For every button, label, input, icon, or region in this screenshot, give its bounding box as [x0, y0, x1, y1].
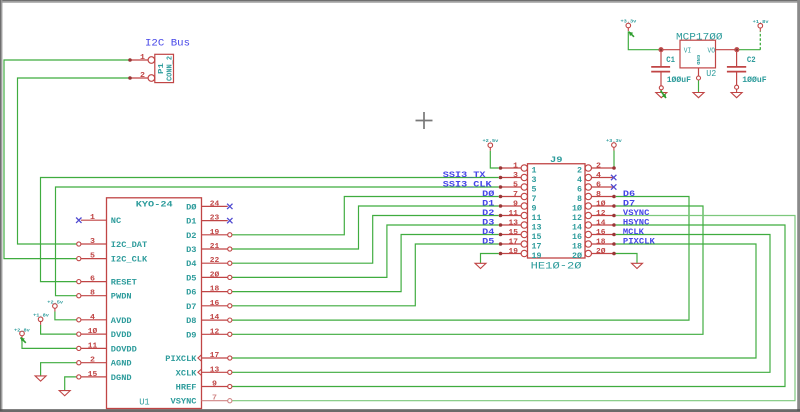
svg-text:15: 15 — [532, 233, 542, 242]
svg-text:VSYNC: VSYNC — [171, 398, 197, 407]
svg-text:1Ø: 1Ø — [572, 204, 582, 213]
svg-text:D5: D5 — [186, 274, 197, 283]
svg-text:VSYNC: VSYNC — [623, 208, 650, 218]
svg-text:D8: D8 — [186, 317, 197, 326]
svg-text:2: 2 — [140, 72, 146, 80]
svg-text:D9: D9 — [186, 331, 197, 340]
svg-text:16: 16 — [210, 300, 220, 308]
svg-text:19: 19 — [532, 252, 542, 261]
svg-text:P1: P1 — [158, 63, 166, 74]
svg-text:D2: D2 — [186, 232, 197, 241]
svg-text:3: 3 — [90, 238, 96, 246]
svg-text:D3: D3 — [482, 217, 494, 227]
svg-text:9: 9 — [513, 200, 519, 208]
svg-text:D7: D7 — [186, 303, 197, 312]
svg-text:VI: VI — [684, 47, 692, 55]
svg-text:NC: NC — [111, 217, 122, 226]
svg-text:D6: D6 — [623, 189, 635, 199]
svg-text:14: 14 — [210, 314, 220, 322]
svg-text:1Ø: 1Ø — [596, 199, 606, 208]
svg-text:14: 14 — [572, 223, 582, 232]
svg-text:16: 16 — [596, 229, 606, 237]
svg-text:9: 9 — [212, 381, 218, 389]
svg-text:1ØØuF: 1ØØuF — [742, 75, 766, 85]
svg-text:HSYNC: HSYNC — [623, 217, 650, 227]
svg-text:+3.3v: +3.3v — [606, 138, 622, 144]
svg-text:D1: D1 — [482, 198, 494, 208]
svg-text:+2.5v: +2.5v — [483, 138, 499, 144]
svg-text:19: 19 — [210, 229, 220, 237]
svg-text:I2C Bus: I2C Bus — [145, 39, 190, 50]
svg-text:PIXCLK: PIXCLK — [623, 236, 656, 246]
svg-text:+2.5v: +2.5v — [47, 300, 63, 306]
svg-text:SSI3_CLK: SSI3_CLK — [443, 179, 493, 189]
svg-text:2Ø: 2Ø — [596, 247, 606, 256]
svg-text:1: 1 — [90, 214, 96, 222]
svg-text:12: 12 — [210, 328, 220, 336]
svg-text:7: 7 — [532, 195, 537, 204]
svg-text:CONN_2: CONN_2 — [167, 56, 175, 81]
svg-text:1: 1 — [513, 162, 519, 170]
svg-text:MCP17ØØ: MCP17ØØ — [676, 32, 723, 44]
svg-text:15: 15 — [88, 371, 98, 379]
svg-text:HREF: HREF — [176, 384, 197, 393]
svg-text:I2C_DAT: I2C_DAT — [111, 241, 148, 250]
svg-text:17: 17 — [509, 238, 519, 246]
svg-text:GND: GND — [695, 55, 701, 65]
svg-text:18: 18 — [572, 242, 582, 251]
svg-text:7: 7 — [212, 395, 217, 403]
svg-text:DVDD: DVDD — [111, 331, 132, 340]
svg-text:DØ: DØ — [482, 189, 494, 199]
svg-text:C2: C2 — [747, 56, 756, 65]
svg-text:6: 6 — [90, 276, 96, 284]
svg-text:8: 8 — [596, 191, 602, 199]
svg-text:18: 18 — [596, 238, 606, 246]
svg-text:2Ø: 2Ø — [210, 270, 220, 279]
svg-text:D7: D7 — [623, 198, 635, 208]
svg-text:15: 15 — [509, 229, 519, 237]
svg-text:23: 23 — [210, 215, 220, 223]
svg-text:D3: D3 — [186, 246, 197, 255]
svg-text:1: 1 — [532, 166, 537, 175]
svg-text:SSI3_TX: SSI3_TX — [443, 170, 487, 180]
svg-text:KYO-24: KYO-24 — [136, 199, 173, 209]
svg-text:PWDN: PWDN — [111, 293, 132, 302]
svg-text:5: 5 — [90, 253, 96, 261]
svg-text:1ØØuF: 1ØØuF — [667, 75, 691, 85]
svg-text:13: 13 — [210, 366, 220, 374]
svg-text:D5: D5 — [482, 236, 494, 246]
svg-text:4: 4 — [90, 314, 96, 322]
svg-text:13: 13 — [532, 223, 542, 232]
svg-text:5: 5 — [513, 181, 519, 189]
svg-text:6: 6 — [596, 181, 602, 189]
svg-text:2: 2 — [577, 166, 582, 175]
svg-text:4: 4 — [596, 172, 602, 180]
svg-text:+1.8v: +1.8v — [753, 19, 769, 25]
svg-text:D4: D4 — [482, 227, 494, 237]
svg-text:11: 11 — [88, 342, 98, 350]
svg-text:+1.8v: +1.8v — [33, 313, 49, 319]
svg-text:DØ: DØ — [186, 203, 197, 212]
svg-text:16: 16 — [572, 233, 582, 242]
svg-text:19: 19 — [509, 248, 519, 256]
svg-text:8: 8 — [90, 290, 96, 298]
svg-text:8: 8 — [577, 195, 582, 204]
svg-text:U2: U2 — [706, 68, 716, 79]
svg-text:22: 22 — [210, 257, 220, 265]
svg-text:17: 17 — [210, 352, 220, 360]
svg-text:+3.3v: +3.3v — [621, 19, 637, 25]
svg-text:DOVDD: DOVDD — [111, 345, 137, 354]
svg-text:24: 24 — [210, 200, 220, 208]
svg-text:D4: D4 — [186, 260, 197, 269]
svg-text:XCLK: XCLK — [176, 369, 197, 378]
svg-text:MCLK: MCLK — [623, 227, 645, 237]
svg-text:2: 2 — [90, 357, 96, 365]
svg-text:PIXCLK: PIXCLK — [165, 355, 196, 364]
svg-text:DGND: DGND — [111, 374, 132, 383]
svg-text:2Ø: 2Ø — [572, 252, 582, 261]
svg-text:13: 13 — [509, 219, 519, 227]
svg-text:J9: J9 — [550, 155, 563, 165]
svg-text:D6: D6 — [186, 289, 197, 298]
svg-text:9: 9 — [532, 204, 537, 213]
svg-text:VO: VO — [708, 47, 716, 55]
svg-text:AVDD: AVDD — [111, 317, 132, 326]
svg-text:3: 3 — [513, 172, 519, 180]
svg-text:AGND: AGND — [111, 360, 132, 369]
svg-text:+2.8v: +2.8v — [14, 328, 30, 334]
svg-text:17: 17 — [532, 242, 542, 251]
svg-text:1Ø: 1Ø — [88, 327, 98, 336]
svg-text:U1: U1 — [139, 396, 150, 407]
svg-text:12: 12 — [572, 214, 582, 223]
svg-text:D2: D2 — [482, 208, 494, 218]
svg-text:HE1Ø-2Ø: HE1Ø-2Ø — [531, 260, 582, 272]
svg-text:1: 1 — [140, 54, 146, 62]
svg-text:12: 12 — [596, 210, 606, 218]
svg-text:18: 18 — [210, 286, 220, 294]
svg-text:5: 5 — [532, 185, 537, 194]
svg-text:RESET: RESET — [111, 279, 137, 288]
svg-text:7: 7 — [513, 191, 518, 199]
svg-text:4: 4 — [577, 176, 582, 185]
svg-text:6: 6 — [577, 185, 582, 194]
svg-text:3: 3 — [532, 176, 537, 185]
svg-text:D1: D1 — [186, 218, 197, 227]
svg-text:2: 2 — [596, 162, 602, 170]
svg-text:I2C_CLK: I2C_CLK — [111, 256, 148, 265]
svg-text:11: 11 — [509, 210, 519, 218]
svg-text:14: 14 — [596, 219, 606, 227]
svg-text:11: 11 — [532, 214, 542, 223]
svg-text:21: 21 — [210, 243, 220, 251]
svg-text:C1: C1 — [666, 56, 675, 65]
